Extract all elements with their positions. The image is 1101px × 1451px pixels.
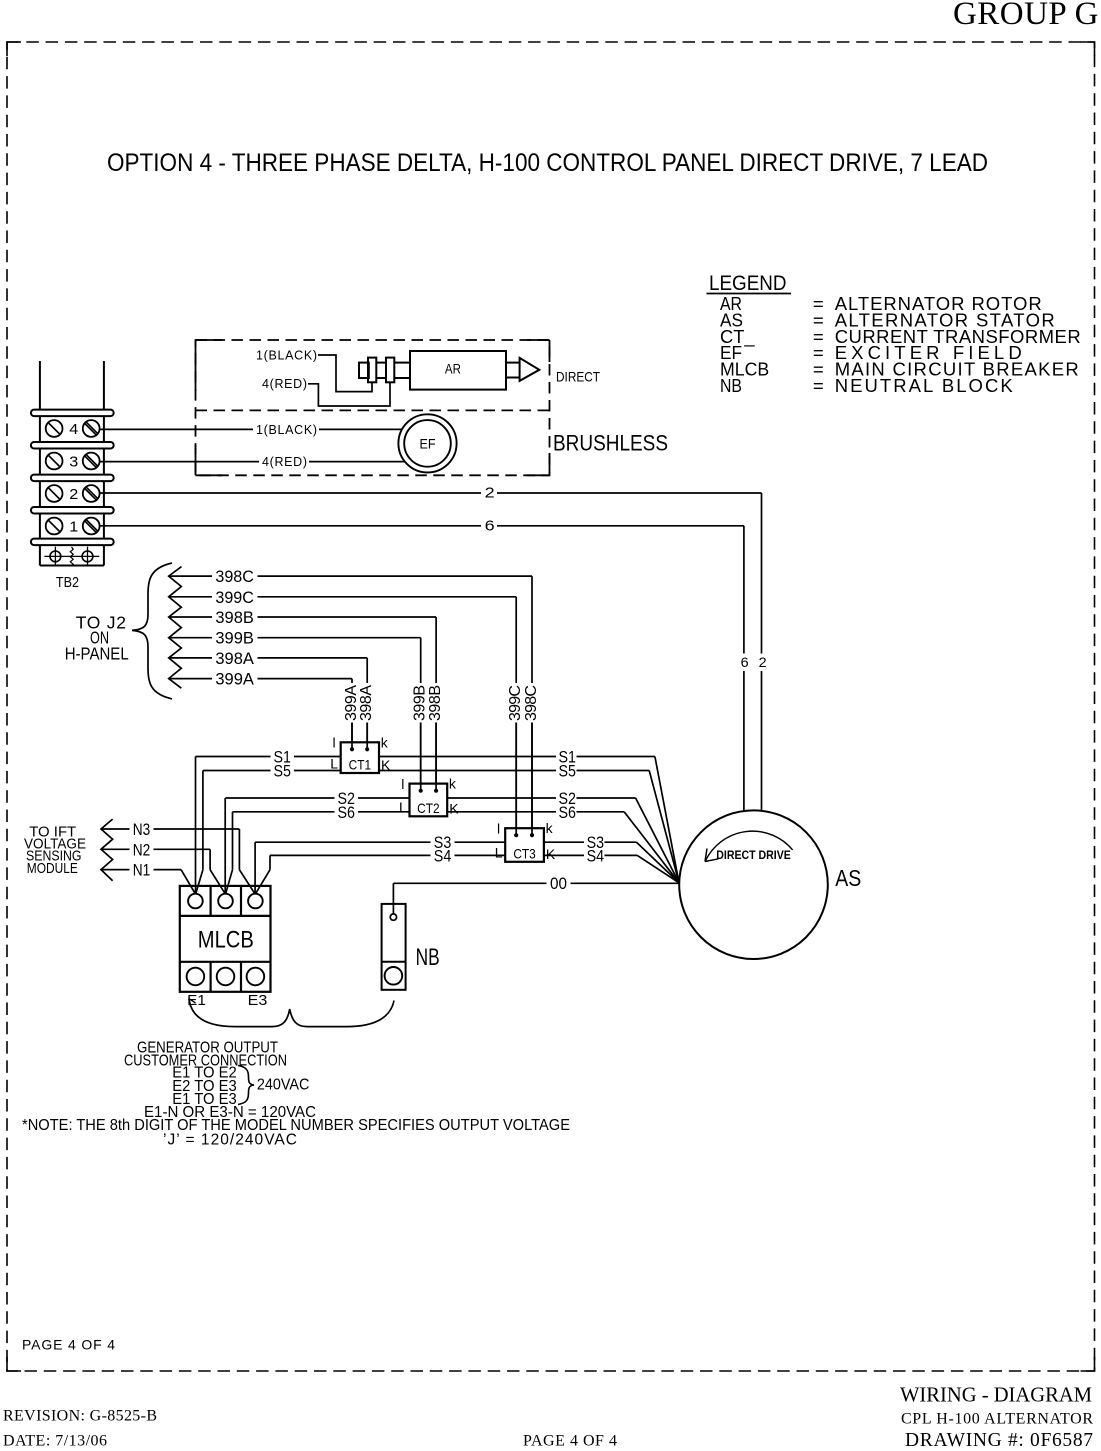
- svg-text:399A: 399A: [343, 685, 360, 721]
- wire N3: [101, 821, 255, 894]
- svg-text:AR: AR: [445, 360, 461, 376]
- wire 399A: [169, 671, 360, 752]
- svg-text:l: l: [401, 776, 404, 792]
- svg-text:NEUTRAL BLOCK: NEUTRAL BLOCK: [835, 375, 1014, 396]
- main circuit breaker MLCB: [180, 886, 271, 992]
- wire S6 right: [447, 804, 679, 883]
- wire N1: [101, 862, 195, 894]
- svg-text:1: 1: [69, 518, 78, 535]
- svg-text:398A: 398A: [215, 650, 254, 668]
- wire 398C: [169, 568, 540, 837]
- wire S4 left: [256, 847, 506, 893]
- wire S5 right: [379, 763, 679, 883]
- svg-text:398C: 398C: [215, 568, 254, 586]
- svg-text:L: L: [330, 756, 338, 772]
- svg-text:OPTION 4 - THREE PHASE DELTA,: OPTION 4 - THREE PHASE DELTA, H-100 CONT…: [107, 149, 988, 177]
- svg-text:S4: S4: [434, 847, 452, 865]
- svg-text:00: 00: [550, 875, 567, 893]
- svg-text:2: 2: [485, 485, 495, 502]
- wire 1(BLACK) TB2-4 to EF: [100, 423, 402, 437]
- wire S3 left: [255, 834, 505, 894]
- svg-text:AS: AS: [835, 865, 861, 891]
- svg-text:6: 6: [741, 654, 749, 670]
- svg-text:S5: S5: [274, 763, 292, 781]
- svg-text:398C: 398C: [523, 685, 540, 721]
- svg-text:2: 2: [759, 654, 767, 670]
- note generator output: [22, 1039, 570, 1148]
- svg-text:S6: S6: [338, 804, 356, 822]
- wire 6 TB2-1 to AS: [100, 517, 749, 811]
- brace to J2: [132, 563, 172, 699]
- svg-text:NB: NB: [720, 375, 742, 396]
- zigzag bus IFT: [101, 819, 113, 881]
- svg-text:398B: 398B: [427, 685, 444, 721]
- neutral block NB: [382, 904, 440, 990]
- svg-text:K: K: [449, 800, 459, 816]
- svg-text:DIRECT DRIVE: DIRECT DRIVE: [716, 848, 791, 862]
- svg-text:EF: EF: [420, 436, 436, 452]
- footer: [3, 1383, 1093, 1451]
- svg-text:k: k: [449, 776, 457, 792]
- wire S4 right: [544, 847, 679, 882]
- svg-text:2: 2: [69, 486, 78, 503]
- wire S2 left: [225, 790, 409, 894]
- svg-text:GROUP G: GROUP G: [953, 0, 1099, 32]
- svg-text:399B: 399B: [215, 630, 254, 648]
- svg-text:CT2: CT2: [417, 800, 440, 816]
- svg-text:WIRING - DIAGRAM: WIRING - DIAGRAM: [900, 1383, 1092, 1407]
- svg-text:4: 4: [69, 421, 78, 438]
- wire 1(BLACK) rotor: [256, 349, 372, 392]
- svg-text:TB2: TB2: [56, 574, 79, 591]
- svg-text:N1: N1: [133, 862, 151, 880]
- svg-text:H-PANEL: H-PANEL: [65, 643, 129, 663]
- wire 00 to NB: [393, 875, 679, 914]
- svg-text:MLCB: MLCB: [198, 927, 254, 954]
- svg-text:N2: N2: [133, 841, 151, 859]
- wire S3 right: [544, 834, 679, 883]
- wire S5 left: [196, 763, 341, 894]
- wire 398A: [169, 650, 375, 752]
- svg-text:LEGEND: LEGEND: [709, 272, 787, 295]
- wire 399C: [169, 589, 524, 838]
- exciter field EF: [398, 414, 456, 472]
- dashed enclosure DIRECT/BRUSHLESS: [196, 340, 550, 475]
- svg-text:CPL H-100 ALTERNATOR: CPL H-100 ALTERNATOR: [901, 1411, 1093, 1428]
- brace generator output: [189, 999, 394, 1027]
- svg-text:’J’ = 120/240VAC: ’J’ = 120/240VAC: [163, 1131, 297, 1148]
- svg-text:399A: 399A: [215, 671, 254, 689]
- svg-text:N3: N3: [133, 821, 151, 839]
- svg-text:399B: 399B: [412, 685, 429, 721]
- svg-text:6: 6: [485, 517, 495, 534]
- svg-text:4(RED): 4(RED): [262, 377, 307, 391]
- wire 4(RED) rotor: [262, 377, 390, 406]
- svg-text:l: l: [497, 821, 500, 837]
- svg-text:MODULE: MODULE: [27, 860, 78, 877]
- svg-text:l: l: [333, 735, 336, 751]
- alternator stator AS: [679, 810, 861, 959]
- svg-text:399C: 399C: [215, 589, 254, 607]
- svg-text:L: L: [495, 844, 503, 860]
- wire S6 left: [226, 804, 410, 894]
- label TO IFT VOLTAGE SENSING MODULE: [24, 824, 86, 878]
- svg-text:PAGE 4 OF 4: PAGE 4 OF 4: [22, 1337, 115, 1353]
- svg-text:E3: E3: [248, 992, 268, 1009]
- svg-text:1(BLACK): 1(BLACK): [256, 349, 317, 363]
- svg-text:3: 3: [69, 453, 78, 470]
- svg-text:BRUSHLESS: BRUSHLESS: [553, 431, 668, 456]
- direct drive arrow: [705, 831, 793, 862]
- svg-text:S4: S4: [587, 847, 605, 865]
- svg-text:K: K: [546, 846, 556, 862]
- legend: [707, 272, 1081, 396]
- svg-text:DRAWING #: 0F6587: DRAWING #: 0F6587: [905, 1430, 1093, 1451]
- wire S2 right: [447, 790, 679, 883]
- zigzag bus J2: [169, 567, 182, 689]
- svg-text:240VAC: 240VAC: [257, 1077, 310, 1094]
- terminal block TB2: [31, 361, 114, 591]
- wire N2: [101, 841, 225, 894]
- svg-text:k: k: [546, 820, 554, 836]
- svg-text:DIRECT: DIRECT: [556, 369, 600, 385]
- wire S1 right: [379, 749, 679, 883]
- svg-text:DATE: 7/13/06: DATE: 7/13/06: [3, 1433, 107, 1450]
- wire 4(RED) TB2-3 to EF: [100, 455, 405, 469]
- wire 399B: [169, 630, 429, 793]
- svg-text:S5: S5: [559, 763, 577, 781]
- svg-text:k: k: [381, 734, 389, 750]
- wire 398B: [169, 609, 444, 793]
- svg-text:CT3: CT3: [513, 845, 536, 861]
- svg-text:S6: S6: [559, 804, 577, 822]
- wire 2 TB2-2 to AS: [100, 485, 767, 811]
- svg-text:1(BLACK): 1(BLACK): [256, 423, 317, 437]
- current transformer CT2: [399, 776, 459, 817]
- wire S1 left: [196, 749, 341, 894]
- current transformer CT1: [330, 734, 391, 773]
- current transformer CT3: [495, 820, 556, 862]
- svg-text:398B: 398B: [215, 609, 254, 627]
- svg-text:=: =: [813, 375, 824, 396]
- svg-text:4(RED): 4(RED): [262, 455, 307, 469]
- alternator rotor AR: [359, 351, 539, 390]
- svg-text:398A: 398A: [358, 685, 375, 721]
- svg-text:CT1: CT1: [349, 757, 372, 773]
- svg-text:399C: 399C: [507, 685, 524, 721]
- svg-text:NB: NB: [416, 944, 440, 971]
- svg-text:PAGE 4 OF 4: PAGE 4 OF 4: [523, 1433, 617, 1450]
- svg-text:REVISION: G-8525-B: REVISION: G-8525-B: [3, 1408, 157, 1425]
- label TO J2 ON H-PANEL: [65, 613, 129, 664]
